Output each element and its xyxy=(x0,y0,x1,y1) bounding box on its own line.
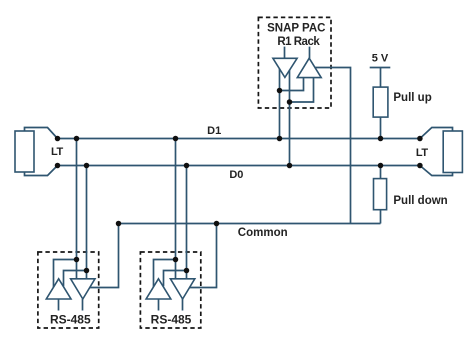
RS-485 device 1 dashed box xyxy=(38,252,99,328)
buffer U1 receiver (down triangle) xyxy=(273,58,297,77)
node pull-up D1 junction xyxy=(378,136,384,142)
wire device2 branch to driver left input xyxy=(154,260,176,289)
SNAP PAC R1 Rack dashed box U1 xyxy=(258,17,331,108)
power 5V supply bar xyxy=(370,67,391,69)
resistor pull-up xyxy=(373,87,388,117)
node pull-down D0 junction xyxy=(378,163,384,169)
wire device1 D0 drop xyxy=(86,166,88,279)
svg-text:Pull down: Pull down xyxy=(393,195,447,207)
wire U1 receiver right input to D0 xyxy=(289,70,291,166)
wire device1 Common drop xyxy=(90,224,119,288)
node LT left D0 junction xyxy=(55,163,61,169)
svg-text:D0: D0 xyxy=(229,169,243,181)
node device2 D1 junction xyxy=(173,136,179,142)
wire driver output stub U1 xyxy=(309,47,311,59)
node LT left D1 junction xyxy=(55,136,61,142)
wire U1 driver enable to Common xyxy=(315,68,351,224)
svg-text:RS-485: RS-485 xyxy=(50,313,91,327)
wire pull-down to Common xyxy=(380,210,382,224)
node device1 D0 junction xyxy=(84,163,90,169)
wire LT left bottom lead xyxy=(25,166,58,176)
wire device2 receiver stub xyxy=(182,299,184,311)
wire Common bus line xyxy=(119,223,381,225)
svg-text:SNAP PAC: SNAP PAC xyxy=(267,23,325,35)
wire 5V to pull-up resistor xyxy=(380,68,382,88)
node device1 D1 junction xyxy=(74,136,80,142)
wire device2 D1 drop xyxy=(175,139,177,279)
buffer device1 driver (up triangle) xyxy=(46,279,71,299)
node device2 D0 junction xyxy=(184,163,190,169)
node device2 Common junction xyxy=(214,221,220,227)
wire U1 driver output B branch xyxy=(290,78,314,102)
node device2 branch A junction xyxy=(173,257,179,263)
wire D0 to pull-down resistor xyxy=(380,166,382,179)
node U1 D1 junction xyxy=(277,136,283,142)
svg-text:RS-485: RS-485 xyxy=(151,313,192,327)
svg-text:Common: Common xyxy=(238,227,288,239)
svg-text:5 V: 5 V xyxy=(372,52,389,64)
wire device1 receiver stub xyxy=(82,299,84,311)
wire device1 branch to driver right input xyxy=(64,271,87,287)
node U1 branch A junction xyxy=(277,88,283,94)
svg-text:LT: LT xyxy=(51,146,64,158)
wire device1 D1 drop xyxy=(76,139,78,279)
wire device2 branch to driver right input xyxy=(164,271,187,287)
node device1 branch B junction xyxy=(84,268,90,274)
node device2 branch B junction xyxy=(184,268,190,274)
buffer device2 receiver (down triangle) xyxy=(170,279,194,299)
wire U1 driver output A branch xyxy=(280,78,304,91)
svg-text:D1: D1 xyxy=(207,125,221,137)
wire LT right bottom lead xyxy=(420,166,453,176)
svg-text:R1 Rack: R1 Rack xyxy=(277,36,320,48)
buffer device1 receiver (down triangle) xyxy=(71,279,95,299)
buffer device2 driver (up triangle) xyxy=(146,279,171,299)
node LT right D1 junction xyxy=(417,136,423,142)
resistor LT left xyxy=(15,131,34,172)
wire pull-up to D1 xyxy=(380,117,382,138)
node device1 Common junction xyxy=(116,221,122,227)
resistor LT right xyxy=(443,131,462,173)
wire LT right top lead xyxy=(420,128,453,139)
wire device1 branch to driver left input xyxy=(54,260,77,289)
svg-text:Pull up: Pull up xyxy=(393,92,431,104)
buffer U1 driver (up triangle) xyxy=(297,58,321,77)
wire D1 bus line xyxy=(58,138,420,140)
RS-485 device 2 dashed box xyxy=(140,252,200,328)
wire device2 D0 drop xyxy=(186,166,188,279)
svg-text:LT: LT xyxy=(416,147,429,159)
wire D0 bus line xyxy=(58,165,420,167)
wire receiver input stub U1 xyxy=(284,47,286,59)
wire LT left top lead xyxy=(25,128,58,139)
wire U1 receiver left input to D1 xyxy=(279,69,281,139)
node U1 branch B junction xyxy=(287,99,293,105)
wire device1 driver stub xyxy=(58,299,60,311)
resistor pull-down xyxy=(374,179,387,210)
wire device2 Common drop xyxy=(190,224,217,288)
node LT right D0 junction xyxy=(417,163,423,169)
node U1 D0 junction xyxy=(287,163,293,169)
node device1 branch A junction xyxy=(74,257,80,263)
wire device2 driver stub xyxy=(158,299,160,311)
